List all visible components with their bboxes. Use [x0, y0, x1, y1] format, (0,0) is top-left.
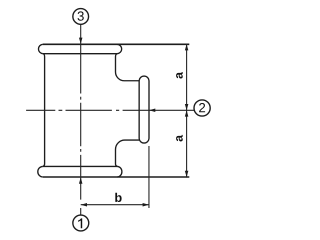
arrow up, dimension a top — [185, 44, 189, 50]
body right edge lower segment with branch fillet — [116, 140, 140, 166]
dimension label a (bottom) — [176, 135, 183, 142]
arrow left at branch opening (label 2) — [149, 109, 155, 113]
digit 3 — [78, 11, 84, 20]
leader line of label 1 — [80, 178, 82, 215]
leader line of label 3 — [80, 24, 82, 44]
label circle 3 — [73, 9, 89, 25]
top bead right rounded end — [117, 44, 121, 53]
arrow down, dimension a at centerline (upper) — [185, 104, 189, 110]
dimension line b (horizontal) — [81, 204, 149, 206]
body left edge — [43, 54, 45, 167]
bottom bead right rounded end — [117, 166, 122, 177]
vertical centerline (dash-dot) — [80, 44, 82, 178]
dimension label b — [115, 193, 121, 202]
digit 1 — [78, 218, 82, 228]
arrow down, dimension a bottom — [185, 171, 189, 177]
bottom bead left rounded end — [38, 166, 43, 177]
tee fitting top edge + top extension line — [43, 43, 189, 45]
bottom bead top line — [43, 165, 117, 167]
arrow right, dimension b — [143, 203, 149, 207]
arrow down at top opening (label 3) — [79, 38, 83, 44]
digit 2 — [199, 103, 205, 112]
extension line for b — [148, 146, 150, 208]
arrow left, dimension b — [81, 203, 87, 207]
branch bead (stadium) — [139, 76, 149, 143]
arrow up, dimension a at centerline (lower) — [185, 110, 189, 116]
label circle 1 — [73, 215, 89, 231]
dimension label a (top) — [176, 72, 183, 79]
top bead bottom line — [43, 53, 117, 55]
top bead left rounded end — [38, 44, 42, 53]
arrow up at bottom opening (label 1) — [79, 177, 83, 183]
body right edge upper segment with branch fillet — [116, 54, 140, 81]
leader line of label 2 — [123, 109, 195, 111]
tee fitting bottom edge + bottom extension line — [43, 176, 189, 178]
horizontal centerline (dash-dot) — [26, 109, 119, 111]
dimension line a (vertical) — [186, 44, 188, 178]
label circle 2 — [194, 100, 210, 116]
